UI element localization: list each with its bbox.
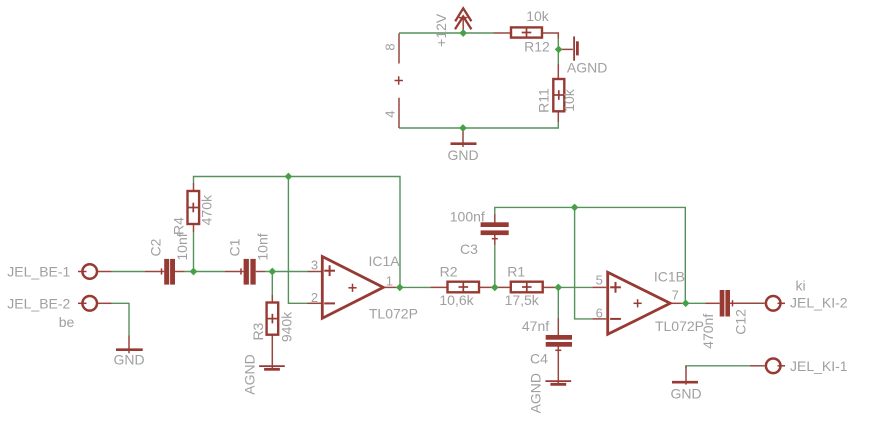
svg-text:ki: ki: [795, 278, 805, 294]
svg-text:JEL_KI-1: JEL_KI-1: [790, 358, 848, 374]
svg-text:TL072P: TL072P: [369, 305, 418, 321]
svg-text:10nf: 10nf: [174, 233, 190, 260]
svg-text:100nf: 100nf: [450, 209, 485, 225]
svg-text:1: 1: [386, 273, 393, 288]
svg-text:10k: 10k: [561, 88, 577, 112]
svg-text:940k: 940k: [279, 311, 295, 342]
svg-text:JEL_KI-2: JEL_KI-2: [790, 295, 848, 311]
svg-text:4: 4: [382, 111, 397, 118]
svg-text:R11: R11: [536, 88, 552, 113]
svg-text:C3: C3: [460, 241, 478, 257]
svg-text:6: 6: [596, 305, 603, 320]
svg-text:10nf: 10nf: [254, 233, 270, 260]
svg-text:R1: R1: [507, 263, 525, 279]
svg-text:R3: R3: [250, 322, 266, 340]
svg-text:C12: C12: [732, 309, 748, 335]
svg-text:GND: GND: [113, 352, 144, 368]
svg-text:AGND: AGND: [567, 60, 607, 76]
svg-text:470k: 470k: [199, 194, 215, 225]
svg-text:3: 3: [311, 258, 318, 273]
svg-text:GND: GND: [447, 147, 478, 163]
svg-text:470nf: 470nf: [700, 314, 716, 349]
svg-text:JEL_BE-1: JEL_BE-1: [7, 264, 70, 280]
svg-text:C4: C4: [530, 351, 548, 367]
svg-text:GND: GND: [670, 385, 701, 401]
svg-text:be: be: [59, 314, 75, 330]
svg-text:47nf: 47nf: [522, 318, 549, 334]
svg-text:17,5k: 17,5k: [505, 292, 540, 308]
svg-text:AGND: AGND: [528, 373, 544, 413]
svg-text:R12: R12: [524, 39, 550, 55]
svg-text:2: 2: [311, 290, 318, 305]
svg-text:AGND: AGND: [242, 354, 258, 394]
svg-text:10k: 10k: [526, 8, 550, 24]
svg-text:R2: R2: [440, 263, 458, 279]
svg-text:JEL_BE-2: JEL_BE-2: [7, 295, 70, 311]
svg-text:IC1A: IC1A: [368, 253, 400, 269]
svg-text:TL072P: TL072P: [655, 318, 704, 334]
svg-text:+12V: +12V: [433, 13, 449, 47]
svg-text:7: 7: [672, 287, 679, 302]
svg-text:C1: C1: [227, 238, 243, 256]
svg-text:C2: C2: [148, 238, 164, 256]
svg-text:R4: R4: [171, 217, 187, 235]
svg-text:10,6k: 10,6k: [439, 292, 474, 308]
svg-text:5: 5: [596, 273, 603, 288]
svg-text:IC1B: IC1B: [654, 268, 685, 284]
svg-text:8: 8: [382, 43, 397, 50]
